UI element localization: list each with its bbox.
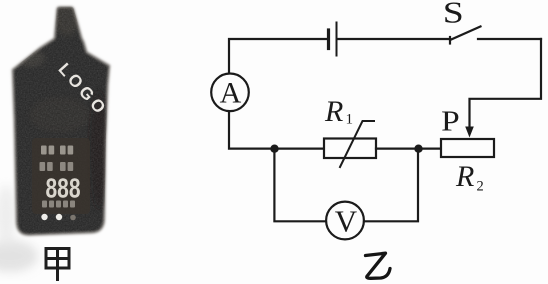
wire right side down to P feed [470,39,542,128]
label 乙 [366,253,391,278]
small label row 2 [40,162,74,171]
label R2 [455,160,484,195]
buttons [41,214,47,220]
wire battery to switch [338,38,451,40]
ammeter A [211,74,249,112]
label R1 [324,95,353,128]
wire top left [229,39,327,74]
svg-text:2: 2 [477,179,484,195]
wire A to bottom row [229,111,324,148]
voltmeter V [326,202,364,240]
label 甲 [46,249,69,282]
svg-text:P: P [441,105,460,137]
switch S [450,27,481,44]
thermistor R1 [324,121,376,167]
svg-text:888: 888 [46,174,81,205]
svg-text:A: A [220,77,242,110]
small label row 3 [42,201,75,208]
wire R1 to R2 [376,148,441,150]
svg-text:V: V [335,204,358,239]
rheostat R2 [441,139,494,157]
small label row 1 [41,146,73,155]
battery [329,23,337,56]
voltmeter branch left [274,149,326,222]
voltmeter branch right [364,149,418,222]
svg-text:S: S [443,0,464,30]
circuit 乙 [211,23,541,240]
junction node left [270,145,278,153]
junction node right [414,145,422,153]
svg-text:R: R [455,160,474,193]
arrowhead P wiper [465,127,474,138]
device photo (meter) [0,0,120,240]
display panel [32,138,90,214]
svg-text:R: R [324,95,343,128]
svg-text:1: 1 [346,112,354,128]
wire switch to right corner [478,38,541,40]
